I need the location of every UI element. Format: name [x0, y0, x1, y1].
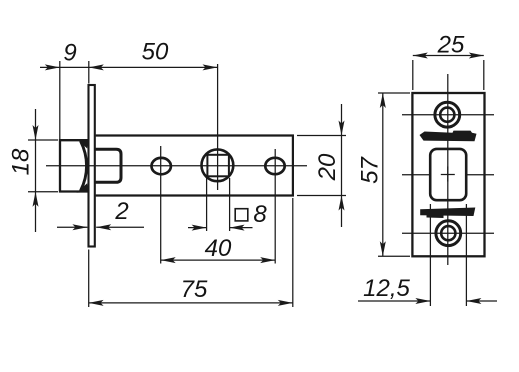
cutout center cross: [447, 167, 449, 182]
dimension line 8: [188, 227, 207, 229]
lower black latch detail: [420, 208, 475, 219]
dimension line 40: [161, 259, 276, 261]
upper black latch detail: [420, 131, 477, 142]
faceplate edge view: [89, 85, 95, 247]
extension lines dim 57: [378, 92, 410, 94]
extension lines for dim 18: [28, 139, 58, 141]
extension lines for dim 20: [297, 135, 346, 137]
bottom screw hole: [436, 221, 461, 246]
dimension line 9 / 50: [40, 66, 218, 68]
centerline hole A: [160, 146, 162, 264]
bolt housing: [94, 149, 121, 182]
extension line 75 right: [292, 198, 294, 307]
dimension line 18: [35, 109, 37, 232]
hole B (oval): [265, 158, 284, 174]
svg-text:40: 40: [205, 235, 232, 262]
extension line faceplate front: [88, 61, 90, 84]
extension line bolt nose: [59, 61, 61, 140]
square symbol: [235, 209, 248, 221]
faceplate front view plate: [412, 93, 484, 256]
extension line 75 left: [88, 250, 90, 308]
centerline hole B: [274, 149, 276, 264]
dimension line 57: [382, 93, 384, 256]
latch body outline: [96, 136, 293, 196]
svg-text:2: 2: [114, 198, 128, 225]
centerline spindle hole / 50 extension: [217, 64, 219, 190]
svg-text:8: 8: [253, 201, 267, 228]
svg-text:25: 25: [437, 32, 465, 59]
svg-text:57: 57: [356, 156, 383, 184]
svg-text:12,5: 12,5: [363, 275, 410, 302]
centerline bottom screw: [402, 232, 494, 234]
svg-text:18: 18: [7, 148, 34, 175]
extension lines dim 25: [412, 60, 414, 90]
bolt cutout (rounded square): [430, 149, 466, 200]
latch bolt head (side view): [60, 139, 90, 193]
dimension line 20: [341, 104, 343, 227]
svg-text:75: 75: [181, 276, 208, 303]
extension lines for dim 8 (square): [206, 178, 208, 231]
svg-text:9: 9: [63, 40, 76, 67]
centerline cutout stubs: [402, 174, 429, 176]
extension lines dim 12,5: [429, 204, 431, 306]
centerline top screw: [402, 114, 494, 116]
dimension line 2: [57, 226, 87, 228]
svg-text:20: 20: [314, 153, 341, 181]
svg-text:50: 50: [142, 39, 169, 66]
dimension line 25: [413, 55, 484, 57]
dimension line 75: [89, 302, 293, 304]
spindle hole circle: [202, 149, 234, 181]
hole A (oval): [152, 158, 171, 174]
top screw hole: [435, 102, 460, 127]
dimension line 12,5: [358, 300, 430, 302]
vertical centerline of plate: [447, 74, 449, 265]
horizontal centerline of body: [46, 165, 307, 167]
spindle square 8mm: [207, 155, 229, 177]
